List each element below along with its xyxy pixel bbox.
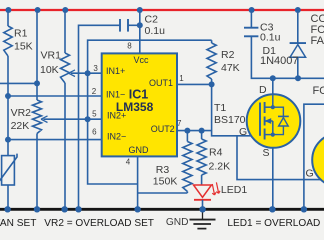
svg-text:5: 5 [92, 110, 97, 119]
svg-text:GND: GND [129, 145, 150, 155]
svg-text:BS170: BS170 [214, 114, 246, 126]
svg-text:OUT1: OUT1 [149, 78, 173, 88]
svg-text:10K: 10K [40, 64, 59, 76]
svg-text:7: 7 [177, 119, 182, 128]
svg-text:LM358: LM358 [116, 100, 154, 114]
svg-text:3: 3 [93, 64, 98, 73]
svg-text:GND: GND [166, 217, 189, 228]
svg-text:4: 4 [126, 158, 131, 167]
svg-text:2.2K: 2.2K [209, 161, 231, 173]
svg-text:VR2: VR2 [11, 107, 32, 119]
svg-text:VR2 = OVERLOAD SET: VR2 = OVERLOAD SET [44, 218, 154, 229]
svg-text:FOR: FOR [313, 85, 324, 97]
svg-text:FAN SET: FAN SET [0, 218, 36, 229]
svg-text:Vcc: Vcc [133, 55, 149, 65]
svg-text:22K: 22K [11, 120, 30, 132]
svg-text:15K: 15K [14, 40, 33, 52]
svg-text:S: S [263, 147, 270, 159]
svg-text:R3: R3 [156, 164, 170, 176]
svg-text:150K: 150K [153, 176, 178, 188]
svg-text:G: G [306, 167, 314, 179]
svg-text:VR1: VR1 [41, 49, 62, 61]
svg-text:1: 1 [179, 74, 184, 83]
svg-text:FAN: FAN [311, 35, 324, 47]
svg-text:IN2−: IN2− [107, 131, 126, 141]
svg-text:1N4007: 1N4007 [260, 55, 299, 67]
svg-text:D: D [259, 84, 267, 96]
svg-text:R2: R2 [221, 49, 235, 61]
svg-text:IN1+: IN1+ [106, 66, 125, 76]
svg-text:OUT2: OUT2 [151, 124, 175, 134]
svg-text:LED1 = OVERLOAD: LED1 = OVERLOAD [227, 218, 320, 229]
svg-text:R1: R1 [14, 27, 28, 39]
svg-text:6: 6 [92, 128, 97, 137]
svg-text:R4: R4 [209, 147, 223, 159]
svg-text:G: G [239, 126, 247, 138]
svg-text:LED1: LED1 [221, 184, 247, 196]
svg-text:T1: T1 [214, 102, 226, 114]
svg-text:0.1u: 0.1u [260, 31, 281, 43]
svg-text:0.1u: 0.1u [145, 25, 166, 37]
svg-text:8: 8 [127, 41, 132, 50]
svg-text:2: 2 [92, 87, 97, 96]
svg-text:IN1−: IN1− [106, 90, 125, 100]
svg-text:C2: C2 [145, 14, 159, 26]
svg-text:47K: 47K [221, 62, 240, 74]
